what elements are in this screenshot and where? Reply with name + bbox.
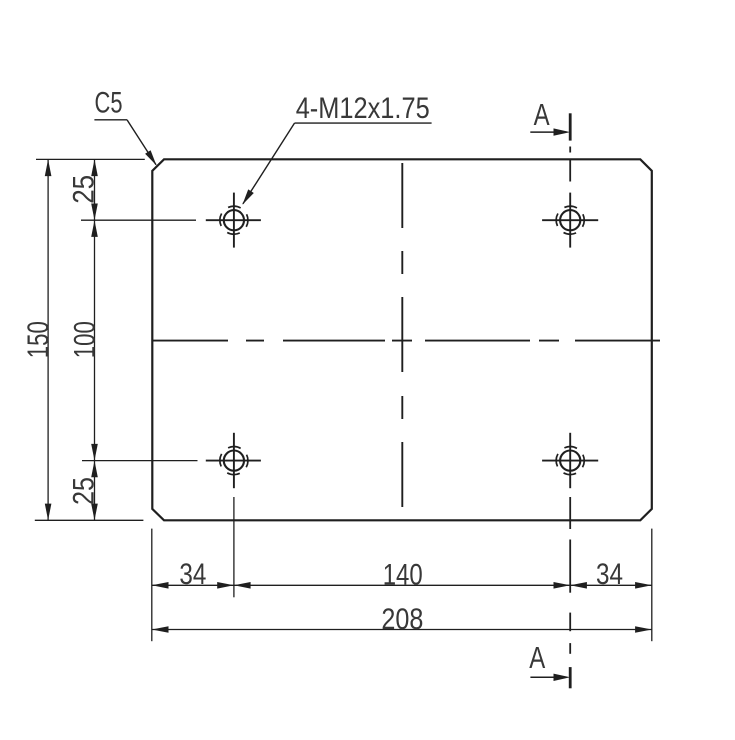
svg-text:25: 25 xyxy=(67,175,100,204)
section arrow A bottom xyxy=(530,674,570,681)
dimension 34 left xyxy=(152,558,234,591)
dimension 25 bottom xyxy=(67,461,100,521)
svg-text:C5: C5 xyxy=(95,87,123,120)
extension line left holes below xyxy=(233,497,235,597)
leader C5 xyxy=(94,87,156,166)
dimension 25 top xyxy=(67,159,100,220)
dimension 34 right xyxy=(570,558,652,591)
extension line bottom-left edge xyxy=(35,519,144,521)
extension line top-left edge xyxy=(36,158,145,160)
dimension 140 xyxy=(234,559,570,592)
svg-text:25: 25 xyxy=(67,477,100,505)
vertical centerline xyxy=(401,163,403,507)
leader 4-M12x1.75 xyxy=(242,92,431,205)
svg-text:140: 140 xyxy=(383,559,423,592)
svg-text:150: 150 xyxy=(22,321,55,358)
svg-text:208: 208 xyxy=(381,603,423,636)
plate outline xyxy=(152,159,652,520)
horizontal centerline xyxy=(152,340,660,342)
dimension 100 xyxy=(68,220,101,460)
hole top-left xyxy=(206,193,261,248)
section line A-A xyxy=(569,113,572,688)
extension line upper hole level xyxy=(81,219,196,221)
hole top-right xyxy=(542,193,598,248)
svg-text:4-M12x1.75: 4-M12x1.75 xyxy=(296,92,430,125)
svg-text:34: 34 xyxy=(179,558,206,591)
svg-text:100: 100 xyxy=(68,321,101,358)
dimension 150 xyxy=(22,159,55,520)
hole bottom-left xyxy=(206,433,261,488)
extension line lower hole level xyxy=(82,460,198,462)
svg-text:A: A xyxy=(534,97,550,132)
section arrow A top xyxy=(530,128,570,135)
dimension 208 xyxy=(152,603,652,636)
hole bottom-right xyxy=(542,433,598,488)
extension line left edge below xyxy=(151,529,153,642)
svg-text:34: 34 xyxy=(596,558,623,591)
svg-text:A: A xyxy=(529,640,545,675)
extension line right edge below xyxy=(651,529,653,642)
